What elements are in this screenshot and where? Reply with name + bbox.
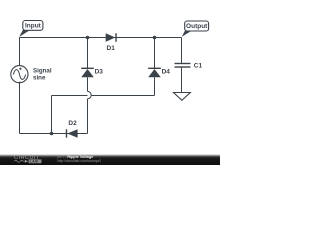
junction node on bottom rail xyxy=(50,132,54,136)
wire: top rail from input node to output node xyxy=(20,37,182,39)
svg-text:Output: Output xyxy=(186,23,208,30)
capacitor C1 xyxy=(175,64,191,68)
footer bar xyxy=(0,154,220,165)
label D4 xyxy=(162,68,171,75)
footer credit text xyxy=(56,155,101,163)
diode D1 xyxy=(106,33,116,42)
junction node on top rail at D3 xyxy=(86,36,90,40)
svg-text:Input: Input xyxy=(25,23,42,30)
svg-text:D1: D1 xyxy=(107,45,116,52)
Output callout xyxy=(182,21,209,37)
svg-text:D3: D3 xyxy=(95,68,104,75)
ground xyxy=(174,93,191,101)
source V1 signal sine xyxy=(11,66,28,83)
svg-text:LAB: LAB xyxy=(30,160,39,164)
wire: vertical from mid rail down to bottom rail junction xyxy=(51,96,53,134)
wire: bottom rail from left rail to D3 branch corner xyxy=(20,133,88,135)
svg-text:http://circuitlab.com/csomys2: http://circuitlab.com/csomys2 xyxy=(58,159,102,163)
svg-text:D4: D4 xyxy=(162,68,171,75)
wire: left rail (input node down to bottom rail) xyxy=(19,38,21,134)
footer logo CIRCUIT LAB xyxy=(14,155,41,163)
diode D2 xyxy=(67,129,78,138)
diode D3 xyxy=(81,68,94,77)
wire: right rail (output node down to C1 and ground) xyxy=(181,38,183,93)
wire hop: D3 branch jumps over mid rail xyxy=(88,91,92,98)
label D2 xyxy=(68,120,77,127)
wire: D3 vertical branch (top rail to bottom rail) xyxy=(87,38,89,134)
label D3 xyxy=(95,68,104,75)
label Signal sine xyxy=(33,68,52,82)
wire: mid rail xyxy=(52,95,155,97)
svg-text:sine: sine xyxy=(33,74,46,81)
svg-text:C1: C1 xyxy=(194,62,203,69)
svg-text:D2: D2 xyxy=(68,120,77,127)
label D1 xyxy=(107,45,116,52)
wire: D4 vertical branch (top rail to mid rail) xyxy=(154,38,156,96)
junction node on top rail at D4 xyxy=(153,36,157,40)
diode D4 xyxy=(148,68,161,77)
label C1 xyxy=(194,62,203,69)
Input callout xyxy=(19,21,43,37)
